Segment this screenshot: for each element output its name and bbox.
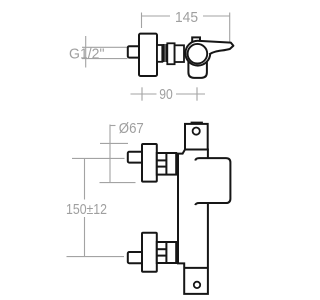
svg-text:G1/2": G1/2"	[69, 45, 105, 62]
svg-text:145: 145	[175, 9, 198, 26]
svg-text:150±12: 150±12	[66, 201, 107, 218]
svg-text:Ø67: Ø67	[119, 120, 144, 137]
svg-text:90: 90	[159, 86, 173, 103]
